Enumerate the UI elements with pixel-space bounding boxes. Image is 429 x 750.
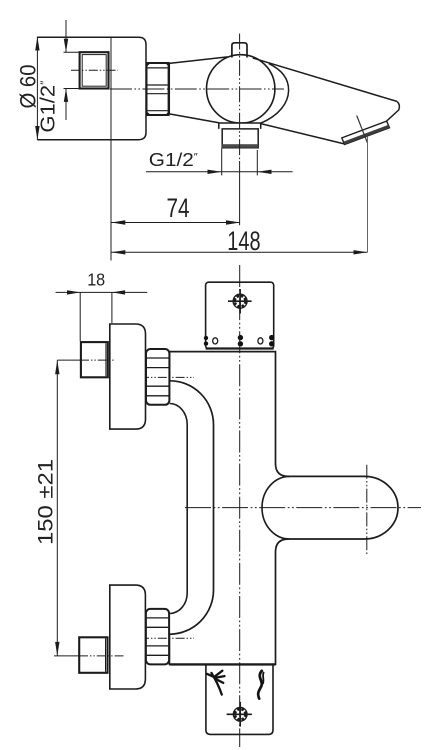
centerline bottom inlet (54, 655, 79, 657)
square top inner line (105, 343, 107, 376)
extension line bottom (escutcheon bottom edge) (37, 139, 111, 141)
outlet pipe (222, 129, 258, 148)
wall connection square fitting S-union (80, 52, 109, 88)
bracket pin dots right (269, 335, 274, 340)
arrow D60 top (35, 37, 39, 51)
bracket screw head (233, 294, 247, 308)
arrow outlet right (257, 170, 271, 174)
svg-text:18: 18 (87, 269, 105, 289)
bracket hole left (213, 338, 218, 344)
arrow G1/2 bottom (64, 89, 68, 102)
plate screw vertical (239, 702, 241, 727)
dimension line outlet G1/2 (146, 171, 293, 173)
centerline top nut axis (140, 376, 194, 378)
arrow 18 right (112, 290, 125, 294)
wall mount bracket (206, 282, 274, 349)
svg-text:G1/2″: G1/2″ (38, 80, 60, 132)
spout top line (253, 58, 397, 101)
thermostat body outline (front view) (169, 352, 398, 665)
arrow D60 bottom (35, 126, 39, 140)
bracket screw knurl ring (235, 296, 246, 307)
centerline square fitting (71, 69, 118, 71)
dimension line 150pm21 (56, 360, 58, 656)
inner pipe contour (170, 404, 188, 614)
union nut bottom (front) (146, 609, 169, 665)
extension line 18 right (111, 292, 113, 323)
extension line top (escutcheon top edge) (37, 36, 111, 38)
vertical extension to 74 dim (239, 161, 241, 225)
arrow outlet left (208, 170, 222, 174)
extension line outlet left (221, 149, 223, 176)
arrow 148 left (111, 250, 125, 254)
svg-text:74: 74 (167, 193, 190, 223)
extension line outlet right (256, 150, 258, 175)
dimension line G1/2 left top shaft (65, 20, 67, 52)
spout base ellipse arc (261, 64, 289, 124)
bracket screw slot (228, 300, 252, 302)
handle screw axis dash-dot (366, 465, 368, 555)
arrow 150 top (55, 360, 59, 374)
aerator outline (342, 121, 390, 144)
arrow G1/2 top (64, 39, 68, 52)
dimension line 74 (111, 222, 240, 224)
centerline bottom nut axis (140, 637, 194, 639)
union nut (side view) (147, 63, 169, 115)
escutcheon top (front) (110, 324, 146, 429)
bracket pin dots left edge (204, 336, 208, 340)
square bottom inner line (105, 638, 107, 671)
arrow 18 left (67, 290, 80, 294)
plate screw knurl ring (235, 709, 246, 720)
extension line from aerator (367, 137, 369, 253)
main axis centerline horizontal (110, 88, 284, 90)
extension line square bottom (64, 88, 80, 90)
bracket hole right (258, 338, 263, 344)
extension line 18 left (79, 292, 81, 341)
left vertical extension line (wall face) (110, 37, 112, 260)
vertical centerline through ball (239, 34, 241, 162)
nut top band lines (147, 358, 169, 396)
plate screw head (233, 707, 247, 721)
dimension line 18 (56, 291, 148, 293)
wall escutcheon (side view) (111, 37, 146, 139)
arrow 150 bottom (55, 642, 59, 656)
dimension line G1/2 left bottom shaft (65, 89, 67, 121)
control stem (232, 43, 247, 58)
arrow 148 right (354, 250, 368, 254)
main vertical centerline (239, 265, 241, 747)
svg-text:148: 148 (227, 226, 260, 256)
nut bottom band lines (147, 618, 169, 655)
cold icon (207, 671, 224, 695)
hot icon (258, 671, 262, 699)
body cone bottom line (169, 114, 219, 123)
outlet shoulder (219, 123, 261, 129)
bracket bottom thick edge (206, 347, 274, 349)
dimension line D60 (36, 37, 38, 141)
bracket screw vertical (239, 289, 241, 314)
handle dome arc (262, 476, 290, 539)
svg-text:150 ±21: 150 ±21 (35, 459, 58, 545)
centerline top inlet (57, 359, 80, 361)
extension line square top (64, 51, 80, 53)
nut corner wedges (147, 63, 169, 115)
dimension line 148 (111, 251, 367, 253)
bracket pin dots center (238, 335, 243, 340)
nut facet lines (148, 68, 168, 111)
aerator axis diagonal (357, 116, 368, 143)
arrow 74 right (226, 220, 240, 224)
cartridge ball (207, 55, 275, 123)
plate screw slot (227, 713, 252, 715)
body cone top line (169, 57, 227, 64)
body bottom thick edge (169, 663, 275, 665)
spout underside line (261, 124, 345, 144)
handle centerline dash-dot (185, 507, 421, 509)
escutcheon bottom (front) (110, 585, 146, 689)
arrow 74 left (111, 220, 125, 224)
bottom plate (206, 664, 273, 734)
outlet thread band (222, 144, 258, 148)
spout tip arc (387, 101, 400, 121)
svg-text:G1/2″: G1/2″ (149, 149, 199, 170)
body cone base edge (168, 63, 170, 114)
square fitting top (front) (81, 342, 108, 377)
aerator dark band (344, 125, 390, 145)
union nut top (front) (146, 349, 169, 405)
square fitting bottom (front) (79, 637, 107, 673)
